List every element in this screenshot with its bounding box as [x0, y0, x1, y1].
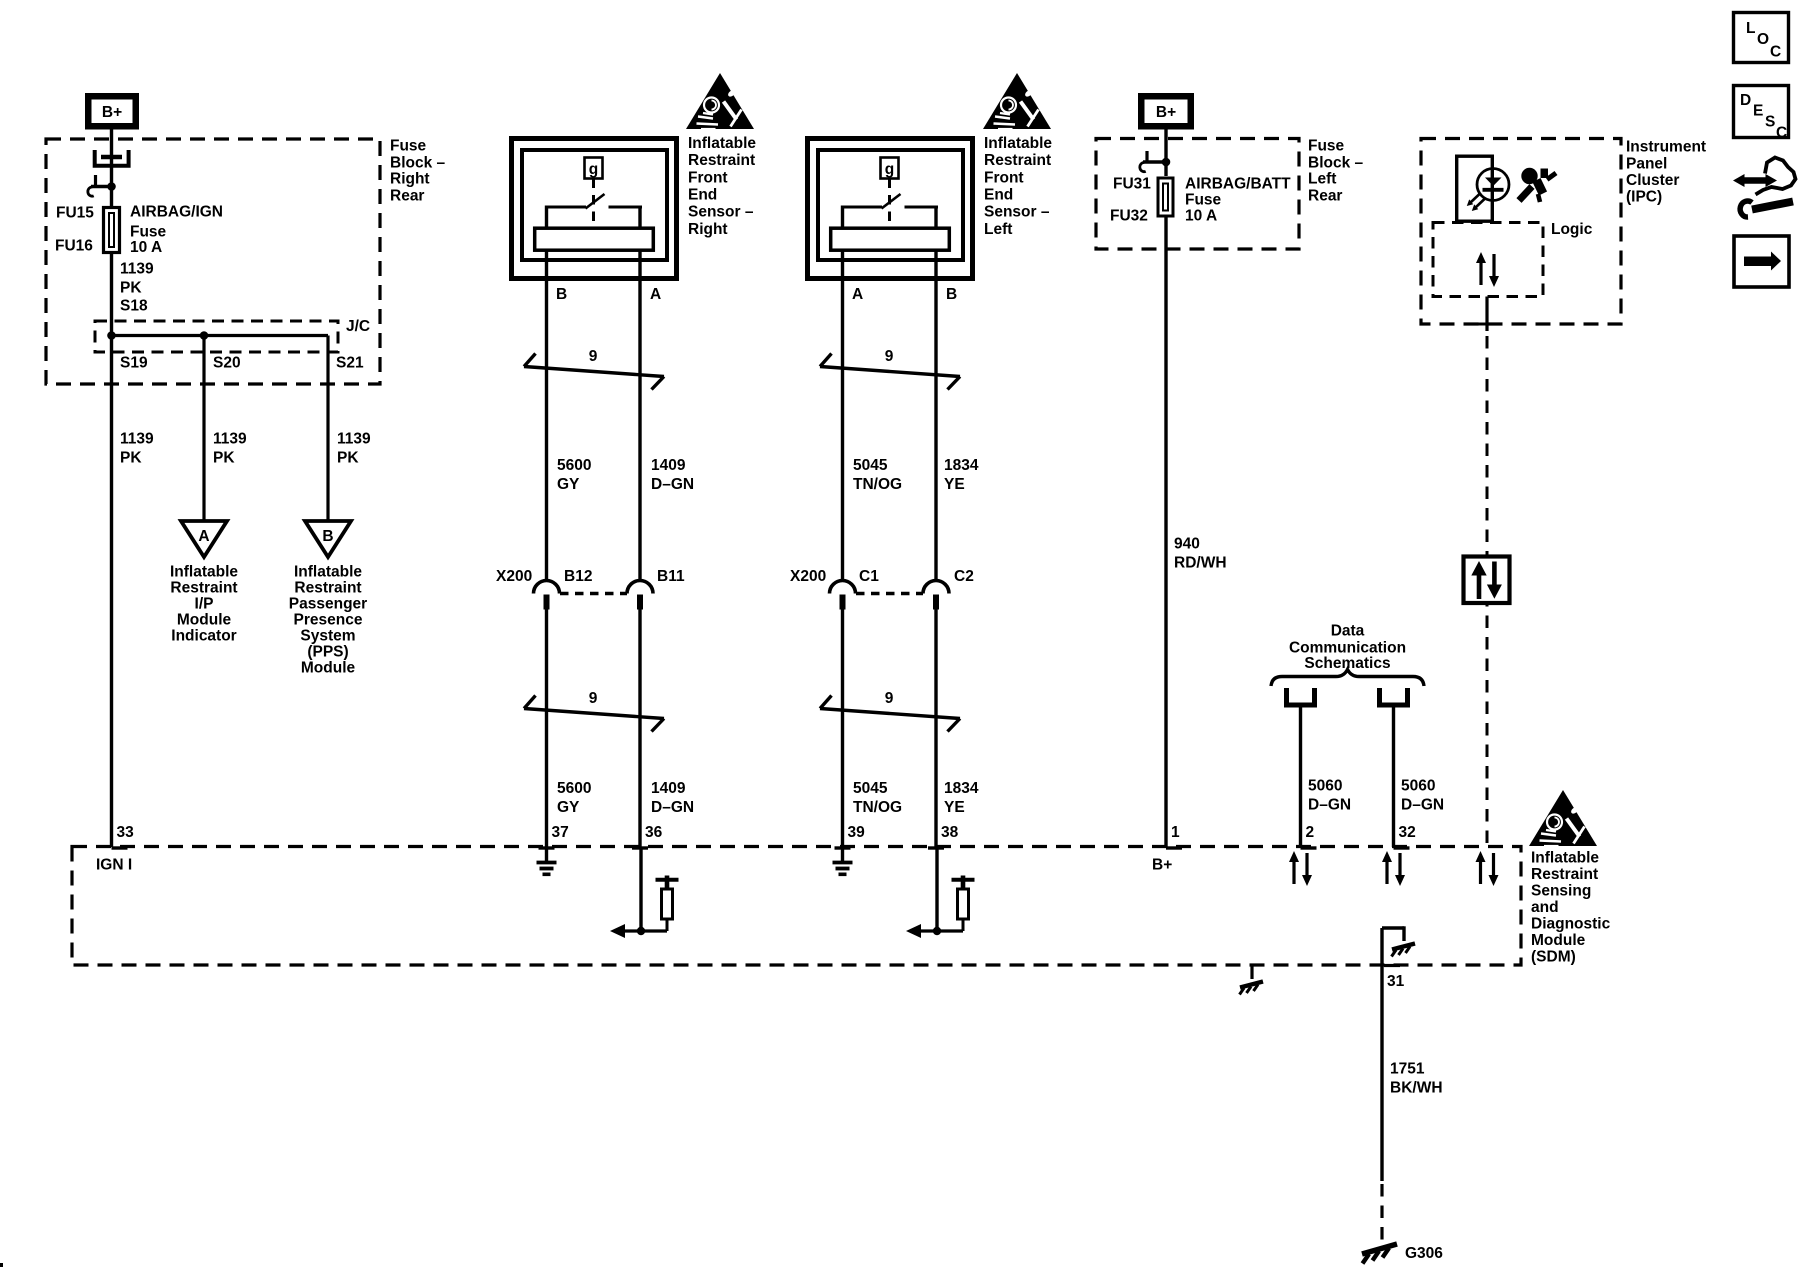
svg-text:S20: S20 — [213, 355, 241, 372]
wire fork to pin 2 — [1299, 708, 1302, 848]
svg-text:36: 36 — [645, 824, 663, 841]
svg-text:IGN I: IGN I — [96, 857, 132, 874]
instrument panel cluster box — [1421, 139, 1621, 325]
IPC pin tick — [1478, 323, 1496, 326]
chassis ground on SDM bottom edge — [1240, 965, 1264, 995]
wire label 5045 TN/OG (lower) — [853, 780, 902, 816]
svg-text:Sensor –: Sensor – — [688, 204, 754, 221]
warning triangle (sensor left) — [983, 73, 1051, 129]
svg-text:32: 32 — [1399, 824, 1416, 841]
pin tick 37 — [539, 846, 555, 849]
fuse block left rear label — [1308, 138, 1364, 205]
svg-text:S: S — [1765, 114, 1775, 131]
logic box — [1433, 223, 1543, 297]
svg-text:S21: S21 — [336, 355, 364, 372]
destination label: Inflatable Restraint I/P Module Indicator — [170, 564, 238, 645]
svg-text:Module: Module — [1531, 932, 1586, 949]
svg-text:Front: Front — [688, 170, 728, 187]
svg-text:Inflatable: Inflatable — [294, 564, 362, 581]
B+ power symbol (right) — [1138, 93, 1194, 130]
svg-text:10 A: 10 A — [1185, 208, 1217, 225]
LED triangle and bar — [1483, 178, 1504, 190]
fuse tap half-bracket (right block) — [1140, 151, 1166, 172]
svg-text:37: 37 — [552, 824, 569, 841]
svg-text:AIRBAG/BATT: AIRBAG/BATT — [1185, 176, 1291, 193]
svg-text:B11: B11 — [657, 568, 685, 585]
svg-text:Restraint: Restraint — [688, 152, 755, 169]
chassis ground symbol (internal) — [1392, 944, 1416, 957]
internal resistor branch pin 38 — [906, 848, 975, 938]
LED light rays — [1467, 194, 1485, 211]
internal ground link pin 31 — [1382, 926, 1404, 941]
svg-text:FU32: FU32 — [1110, 208, 1148, 225]
mass element box — [535, 228, 654, 250]
contact drop right — [638, 206, 641, 229]
front end sensor left: sensor column reuse — [808, 139, 973, 848]
B+ power symbol (left) — [85, 93, 139, 130]
fuse FU31/FU32 symbol — [1158, 178, 1173, 216]
svg-text:PK: PK — [120, 280, 142, 297]
node S20 — [200, 331, 209, 340]
svg-text:Inflatable: Inflatable — [1531, 850, 1599, 867]
pin tick 36 — [632, 846, 648, 849]
airbag telltale icon — [1519, 168, 1556, 202]
serial arrows pin 32 — [1382, 851, 1405, 886]
pin tick 39 — [835, 846, 851, 849]
svg-text:Sensing: Sensing — [1531, 883, 1591, 900]
svg-text:J/C: J/C — [346, 318, 370, 335]
svg-text:FU31: FU31 — [1113, 176, 1151, 193]
inline connector arc right — [627, 581, 653, 610]
wire label 1834 YE (upper) — [944, 457, 979, 493]
svg-text:PK: PK — [120, 450, 142, 467]
fuse FU15/FU16 symbol — [104, 208, 120, 253]
svg-text:S18: S18 — [120, 298, 148, 315]
page edge speck — [0, 1263, 3, 1267]
svg-text:33: 33 — [117, 824, 135, 841]
fuse block right rear box — [46, 139, 380, 384]
svg-text:Rear: Rear — [1308, 188, 1342, 205]
wire label 1139 PK (main) — [120, 431, 154, 467]
pin tick 38 — [928, 846, 944, 849]
svg-text:B+: B+ — [102, 104, 122, 121]
g-sensor box — [585, 158, 603, 179]
wire label 940 RD/WH — [1174, 536, 1227, 572]
svg-text:D–GN: D–GN — [651, 799, 694, 816]
svg-text:5060: 5060 — [1401, 778, 1435, 795]
off-page connector triangle B — [305, 521, 351, 557]
twisted pair crossing (lower) — [524, 696, 664, 732]
pin tick 33 — [112, 846, 128, 849]
wire left connector to SDM — [545, 609, 548, 847]
wire label 5060 D-GN (pin 2) — [1308, 778, 1351, 814]
svg-text:FU15: FU15 — [56, 205, 94, 222]
svg-text:Inflatable: Inflatable — [984, 135, 1052, 152]
svg-text:Diagnostic: Diagnostic — [1531, 916, 1611, 933]
svg-text:1834: 1834 — [944, 457, 979, 474]
internal ground pin 37 — [537, 847, 557, 874]
svg-text:10 A: 10 A — [130, 239, 162, 256]
destination label: Inflatable Restraint Passenger Presence System (PPS) Module — [289, 564, 367, 677]
svg-text:Communication: Communication — [1289, 640, 1406, 657]
junction node on B+ wire (right block) — [1162, 158, 1171, 167]
svg-text:GY: GY — [557, 476, 580, 493]
wire label 1139 PK (top) — [120, 261, 154, 297]
svg-text:A: A — [650, 286, 661, 303]
svg-text:Fuse: Fuse — [130, 224, 167, 241]
svg-text:B12: B12 — [564, 568, 592, 585]
svg-text:D–GN: D–GN — [1308, 797, 1351, 814]
svg-text:C1: C1 — [859, 568, 879, 585]
wire 940 RD/WH down to SDM pin 1 — [1164, 216, 1167, 847]
svg-text:1409: 1409 — [651, 457, 686, 474]
bus wire inside J/C — [112, 334, 329, 337]
svg-text:I/P: I/P — [195, 596, 214, 613]
svg-text:Restraint: Restraint — [170, 580, 237, 597]
fuse block right rear label — [390, 138, 446, 205]
label Inflatable Restraint Front End Sensor - Left — [984, 135, 1052, 238]
svg-text:1751: 1751 — [1390, 1061, 1425, 1078]
svg-text:(SDM): (SDM) — [1531, 949, 1576, 966]
svg-text:YE: YE — [944, 476, 965, 493]
svg-text:A: A — [852, 286, 863, 303]
junction block J/C box — [95, 321, 338, 352]
svg-text:9: 9 — [885, 348, 894, 365]
svg-text:B: B — [556, 286, 567, 303]
dashed actuator link — [592, 179, 595, 227]
serial data box on line — [1464, 557, 1510, 604]
switch arm — [586, 194, 605, 209]
svg-text:5600: 5600 — [557, 457, 591, 474]
svg-text:TN/OG: TN/OG — [853, 476, 902, 493]
contact drop left — [545, 206, 548, 229]
svg-text:B+: B+ — [1156, 104, 1176, 121]
svg-text:Inflatable: Inflatable — [170, 564, 238, 581]
pin tick 31 — [1384, 964, 1400, 967]
svg-text:Indicator: Indicator — [171, 628, 236, 645]
sensor outer case — [512, 139, 677, 279]
wire label 1409 D-GN (upper) — [651, 457, 694, 493]
fuse value label AIRBAG/BATT Fuse 10 A — [1185, 176, 1291, 225]
svg-text:5600: 5600 — [557, 780, 591, 797]
brace under data communication label — [1271, 670, 1424, 687]
svg-text:Right: Right — [688, 221, 728, 238]
wire fork to pin 32 — [1392, 708, 1395, 848]
svg-text:Panel: Panel — [1626, 156, 1667, 173]
svg-text:and: and — [1531, 899, 1559, 916]
svg-text:Fuse: Fuse — [1308, 138, 1345, 155]
wire fuse to junction S18 — [110, 254, 113, 847]
svg-text:1834: 1834 — [944, 780, 979, 797]
indicator LED circle — [1477, 169, 1509, 201]
header icon DESC — [1734, 86, 1789, 142]
svg-text:1139: 1139 — [120, 431, 154, 448]
wire label 1834 YE (lower) — [944, 780, 979, 816]
switch contact right — [609, 206, 643, 209]
svg-text:C: C — [1776, 125, 1787, 142]
ground G306 symbol — [1362, 1244, 1397, 1264]
svg-text:940: 940 — [1174, 536, 1200, 553]
dashed wire to ground G306 — [1380, 1184, 1383, 1242]
label Data Communication Schematics — [1289, 623, 1406, 673]
data link fork (pin 2) — [1287, 688, 1315, 705]
svg-text:E: E — [1753, 103, 1763, 120]
wire label 1751 BK/WH — [1390, 1061, 1443, 1097]
serial arrows pin 2 — [1289, 851, 1312, 886]
SDM module box — [72, 847, 1521, 966]
svg-text:Inflatable: Inflatable — [688, 135, 756, 152]
svg-text:FU16: FU16 — [55, 238, 93, 255]
wire pin 31 down — [1380, 928, 1383, 1181]
svg-text:End: End — [688, 187, 717, 204]
svg-text:Passenger: Passenger — [289, 596, 367, 613]
svg-text:Block –: Block – — [390, 155, 446, 172]
svg-text:X200: X200 — [790, 568, 826, 585]
off-page connector triangle A — [181, 521, 227, 557]
svg-text:Block –: Block – — [1308, 155, 1364, 172]
svg-text:39: 39 — [848, 824, 866, 841]
sensor inner case — [522, 150, 667, 260]
pin tick 2 — [1301, 846, 1317, 849]
svg-text:C: C — [1770, 44, 1781, 61]
svg-text:5060: 5060 — [1308, 778, 1342, 795]
svg-text:5045: 5045 — [853, 457, 888, 474]
svg-text:Logic: Logic — [1551, 221, 1593, 238]
svg-text:B: B — [322, 528, 333, 545]
svg-text:1409: 1409 — [651, 780, 686, 797]
svg-text:GY: GY — [557, 799, 580, 816]
svg-text:1139: 1139 — [337, 431, 371, 448]
svg-text:AIRBAG/IGN: AIRBAG/IGN — [130, 204, 223, 221]
data link fork (pin 32) — [1380, 688, 1408, 705]
sensor wire right down to connector — [638, 250, 641, 581]
svg-text:Data: Data — [1331, 623, 1365, 640]
svg-text:RD/WH: RD/WH — [1174, 555, 1227, 572]
svg-text:9: 9 — [589, 348, 598, 365]
header icon right arrow box — [1734, 236, 1789, 287]
svg-text:5045: 5045 — [853, 780, 888, 797]
indicator lamp housing — [1457, 156, 1493, 221]
junction node on B+ wire — [107, 182, 116, 191]
svg-text:Left: Left — [984, 221, 1012, 238]
svg-text:1139: 1139 — [213, 431, 247, 448]
internal resistor branch pin 36 — [610, 848, 679, 938]
svg-text:Sensor –: Sensor – — [984, 204, 1050, 221]
fuse block left rear box — [1096, 139, 1299, 250]
wire label 1139 PK (branch A) — [213, 431, 247, 467]
svg-text:Front: Front — [984, 170, 1024, 187]
wire S21 branch down — [326, 336, 329, 522]
wire B+ to fuse FU15 — [110, 130, 113, 207]
svg-text:X200: X200 — [496, 568, 532, 585]
node S19 — [107, 331, 116, 340]
svg-text:G306: G306 — [1405, 1245, 1443, 1262]
IPC output stem — [1485, 297, 1488, 332]
dashed serial data line IPC to SDM — [1486, 336, 1489, 846]
svg-text:9: 9 — [885, 690, 894, 707]
wire label 1409 D-GN (lower) — [651, 780, 694, 816]
terminal clip in fuse block — [95, 150, 129, 166]
wire right connector to SDM — [638, 609, 641, 847]
svg-text:Rear: Rear — [390, 188, 424, 205]
svg-text:2: 2 — [1306, 824, 1315, 841]
svg-text:1139: 1139 — [120, 261, 154, 278]
svg-text:Restraint: Restraint — [984, 152, 1051, 169]
header icon arrows and wrench — [1733, 158, 1796, 218]
pin tick 1 — [1166, 846, 1182, 849]
svg-text:L: L — [1746, 20, 1755, 37]
fuse value label AIRBAG/IGN Fuse 10 A — [130, 204, 223, 257]
svg-text:YE: YE — [944, 799, 965, 816]
warning triangle (SDM) — [1529, 790, 1597, 846]
svg-text:PK: PK — [337, 450, 359, 467]
svg-text:PK: PK — [213, 450, 235, 467]
svg-text:Module: Module — [301, 660, 356, 677]
svg-text:B+: B+ — [1152, 857, 1172, 874]
warning triangle (sensor right) — [686, 73, 754, 129]
serial data arrows in logic box — [1476, 252, 1499, 287]
wire label 5600 GY (upper) — [557, 457, 591, 493]
connector dashed link — [560, 592, 627, 595]
svg-text:9: 9 — [589, 690, 598, 707]
svg-text:Fuse: Fuse — [1185, 192, 1222, 209]
svg-text:Restraint: Restraint — [294, 580, 361, 597]
svg-text:Fuse: Fuse — [390, 138, 427, 155]
label Inflatable Restraint Sensing and Diagnostic Module (SDM) — [1531, 850, 1611, 966]
twisted pair crossing (upper) — [524, 354, 664, 390]
front end sensor right: sensor column group — [512, 139, 677, 848]
svg-text:C2: C2 — [954, 568, 974, 585]
svg-text:A: A — [198, 528, 209, 545]
label Instrument Panel Cluster (IPC) — [1626, 139, 1706, 206]
svg-text:BK/WH: BK/WH — [1390, 1080, 1443, 1097]
serial arrows dashed line — [1476, 851, 1499, 886]
wire label 1139 PK (branch B) — [337, 431, 371, 467]
svg-text:Instrument: Instrument — [1626, 139, 1706, 156]
svg-text:31: 31 — [1387, 973, 1405, 990]
svg-text:Cluster: Cluster — [1626, 172, 1679, 189]
svg-text:38: 38 — [941, 824, 959, 841]
svg-text:D: D — [1740, 92, 1751, 109]
switch contact left — [545, 206, 586, 209]
wire label 5600 GY (lower) — [557, 780, 591, 816]
wire label 5045 TN/OG (upper) — [853, 457, 902, 493]
svg-text:Module: Module — [177, 612, 232, 629]
svg-text:End: End — [984, 187, 1013, 204]
svg-text:D–GN: D–GN — [651, 476, 694, 493]
header icon LOC — [1734, 13, 1789, 63]
svg-text:Left: Left — [1308, 171, 1336, 188]
svg-text:1: 1 — [1171, 824, 1180, 841]
fuse tap half-bracket S-clip — [88, 175, 110, 196]
svg-text:TN/OG: TN/OG — [853, 799, 902, 816]
pin tick 32 — [1394, 846, 1410, 849]
wire S20 branch down — [202, 336, 205, 522]
svg-text:Restraint: Restraint — [1531, 866, 1598, 883]
label Inflatable Restraint Front End Sensor - Right — [688, 135, 756, 238]
svg-text:S19: S19 — [120, 355, 148, 372]
svg-text:(PPS): (PPS) — [307, 644, 348, 661]
internal ground pin 39 — [833, 847, 853, 874]
svg-text:D–GN: D–GN — [1401, 797, 1444, 814]
svg-text:System: System — [300, 628, 355, 645]
svg-text:Presence: Presence — [294, 612, 363, 629]
sensor wire left down to connector — [545, 250, 548, 581]
svg-text:Right: Right — [390, 171, 430, 188]
svg-text:B: B — [946, 286, 957, 303]
svg-text:(IPC): (IPC) — [1626, 189, 1662, 206]
wire B+ to fuse FU31 — [1164, 130, 1167, 177]
svg-text:g: g — [589, 161, 598, 178]
wire label 5060 D-GN (pin 32) — [1401, 778, 1444, 814]
svg-text:O: O — [1757, 31, 1769, 48]
inline connector arc left — [534, 581, 560, 610]
